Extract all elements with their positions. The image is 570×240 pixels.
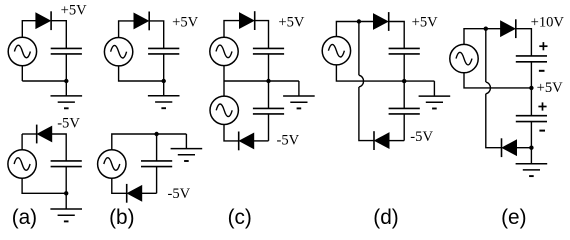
wire b1 bottom: [119, 66, 164, 81]
wire e mid to cap2: [530, 88, 532, 116]
polarity + C9: [539, 42, 547, 50]
svg-text:-5V: -5V: [168, 186, 191, 202]
ground a2: [50, 209, 82, 221]
wire c middle: [223, 66, 225, 97]
wire b2 bottom right: [142, 192, 157, 194]
junction e mid: [529, 86, 533, 90]
diode D8: [374, 131, 389, 150]
wire a1 cap to bottom: [65, 54, 67, 81]
wire d top: [336, 22, 373, 37]
wire d ground stem: [433, 81, 435, 96]
diode D4: [127, 184, 142, 203]
ground e: [516, 164, 548, 176]
capacitor C7: [389, 48, 420, 54]
diode D1: [36, 11, 51, 30]
AC source V4: [98, 150, 126, 178]
diode D10: [502, 138, 517, 157]
wire e diode to cap branch: [516, 29, 531, 56]
capacitor C3: [148, 48, 179, 54]
wire a1 ground stem: [65, 81, 67, 96]
wire d cap1 to middle: [403, 54, 405, 81]
wire b2 top: [112, 134, 187, 150]
capacitor C5: [253, 48, 284, 54]
svg-text:(b): (b): [109, 206, 134, 229]
wire a1 bottom: [22, 80, 66, 82]
svg-text:+10V: +10V: [531, 15, 565, 31]
wire e bypass lower: [486, 94, 502, 148]
wire e bottom right: [517, 147, 532, 149]
wire c cap1 to middle: [268, 54, 270, 81]
wire e cap1 to middle: [530, 62, 532, 88]
wire d cap2 to bottom: [403, 114, 405, 141]
svg-text:+5V: +5V: [172, 15, 199, 31]
wire c cap2 to bottom: [268, 114, 270, 141]
svg-text:+5V: +5V: [61, 3, 88, 19]
svg-text:(e): (e): [501, 206, 526, 229]
svg-text:+5V: +5V: [412, 15, 439, 31]
wire d bypass upper: [358, 22, 360, 76]
junction b1: [162, 79, 166, 83]
wire a2 cap to bottom: [65, 167, 67, 194]
wire b1 cap to bottom: [163, 54, 165, 81]
wire e top: [464, 29, 501, 45]
wire d bottom right: [389, 140, 404, 142]
wire b1 top rail: [119, 21, 134, 38]
wire e middle: [464, 73, 531, 88]
wire d diode to cap branch: [389, 22, 404, 49]
AC source V8: [450, 44, 478, 72]
wire c ground stem: [298, 81, 300, 96]
wire e cap2 to bottom: [530, 122, 532, 148]
AC source V5: [210, 37, 238, 65]
wire e ground stem: [530, 148, 532, 164]
ground d: [419, 96, 451, 108]
junction e bottom: [529, 146, 533, 150]
junction c mid: [266, 79, 270, 83]
capacitor C1: [51, 48, 82, 54]
capacitor C10: [516, 116, 547, 122]
wire a2 bottom: [22, 178, 66, 193]
capacitor C6: [253, 108, 284, 114]
wire d middle: [336, 65, 434, 81]
AC source V7: [322, 37, 350, 65]
svg-text:+5V: +5V: [537, 80, 564, 96]
wire c middle horizontal: [224, 80, 299, 82]
wire a1 top rail: [22, 21, 36, 81]
AC source V2: [8, 150, 36, 178]
svg-text:+5V: +5V: [278, 14, 305, 30]
diode D6: [239, 132, 254, 151]
junction b2: [154, 132, 158, 136]
junction a2: [64, 191, 68, 195]
svg-text:(a): (a): [12, 206, 37, 229]
wire e bypass hop: [486, 82, 491, 94]
wire a2 diode to cap branch: [52, 134, 66, 161]
polarity + C10: [538, 102, 546, 110]
wire c bottom right: [254, 140, 269, 142]
AC source V6: [210, 96, 238, 124]
capacitor C9: [516, 56, 547, 62]
diode D5: [240, 11, 255, 30]
ground b1: [148, 96, 180, 108]
ground a1: [51, 96, 83, 108]
polarity - C10: [539, 130, 545, 132]
svg-text:-5V: -5V: [57, 116, 80, 132]
wire a2 top left: [22, 133, 37, 135]
wire a2 top rail: [21, 134, 23, 150]
diode D9: [501, 19, 516, 38]
svg-text:(c): (c): [228, 206, 252, 229]
ground c: [283, 96, 315, 108]
wire c top rail: [224, 21, 240, 38]
capacitor C4: [141, 161, 172, 167]
diode D2: [37, 125, 52, 144]
wire a2 ground stem: [65, 193, 67, 209]
svg-text:-5V: -5V: [277, 132, 300, 148]
junction e top: [484, 27, 488, 31]
wire b1 diode to cap branch: [150, 21, 164, 49]
wire c diode to cap branch: [255, 21, 269, 49]
wire c bottom left: [224, 125, 239, 141]
wire d bypass lower: [359, 87, 374, 141]
wire b1 ground stem: [163, 81, 165, 96]
wire e bypass upper: [485, 29, 487, 82]
ground b2: [171, 149, 203, 161]
capacitor C2: [51, 161, 82, 167]
wire b2 cap to bottom: [156, 167, 158, 194]
diode D7: [374, 12, 389, 31]
wire a1 diode to cap branch: [51, 21, 66, 49]
wire b2 cap branch: [156, 134, 158, 161]
wire b2 right ground stem: [185, 134, 187, 149]
wire c mid to cap2: [268, 81, 270, 108]
wire d mid to cap2: [403, 81, 405, 108]
wire d bypass hop: [359, 75, 364, 87]
junction d top: [357, 19, 361, 23]
polarity - C9: [539, 70, 545, 72]
svg-text:(d): (d): [373, 206, 398, 229]
diode D3: [134, 12, 149, 31]
AC source V1: [8, 37, 36, 65]
junction a1: [64, 79, 68, 83]
wire b2 bottom left: [112, 178, 127, 193]
svg-text:-5V: -5V: [410, 129, 433, 145]
junction d mid: [402, 79, 406, 83]
AC source V3: [104, 38, 132, 66]
capacitor C8: [389, 108, 420, 114]
